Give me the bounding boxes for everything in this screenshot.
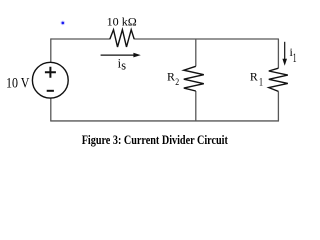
resistor 10k zigzag bbox=[110, 30, 134, 47]
voltage source minus sign bbox=[47, 90, 54, 92]
svg-text:2: 2 bbox=[175, 77, 179, 88]
svg-text:10 V: 10 V bbox=[6, 75, 30, 91]
svg-text:R: R bbox=[167, 69, 175, 83]
wire: left vertical above source bbox=[50, 38, 52, 62]
svg-text:1: 1 bbox=[293, 50, 297, 65]
svg-text:R: R bbox=[250, 69, 258, 83]
resistor R2 zigzag bbox=[184, 66, 204, 91]
resistor R1 zigzag bbox=[269, 68, 288, 91]
wire: middle vertical above R2 bbox=[195, 39, 197, 66]
svg-text:10 kΩ: 10 kΩ bbox=[107, 15, 137, 29]
svg-text:s: s bbox=[121, 57, 126, 72]
wire: right vertical below R1 bbox=[277, 91, 279, 121]
wire: middle vertical below R2 bbox=[195, 91, 197, 121]
voltage source plus sign bbox=[45, 67, 56, 78]
current arrow i_s bbox=[101, 54, 135, 56]
wire: left vertical below source bbox=[50, 98, 52, 121]
stray blue dot bbox=[62, 22, 65, 25]
wire: right vertical above R1 bbox=[277, 39, 279, 68]
wire: bottom bbox=[50, 120, 279, 122]
svg-text:Figure 3: Current Divider Circ: Figure 3: Current Divider Circuit bbox=[82, 133, 228, 147]
wire: top right segment bbox=[134, 38, 279, 40]
voltage source V1 circle bbox=[32, 62, 68, 98]
wire: top left segment bbox=[51, 38, 110, 40]
svg-text:1: 1 bbox=[259, 74, 263, 88]
current arrow i1 bbox=[284, 42, 286, 60]
